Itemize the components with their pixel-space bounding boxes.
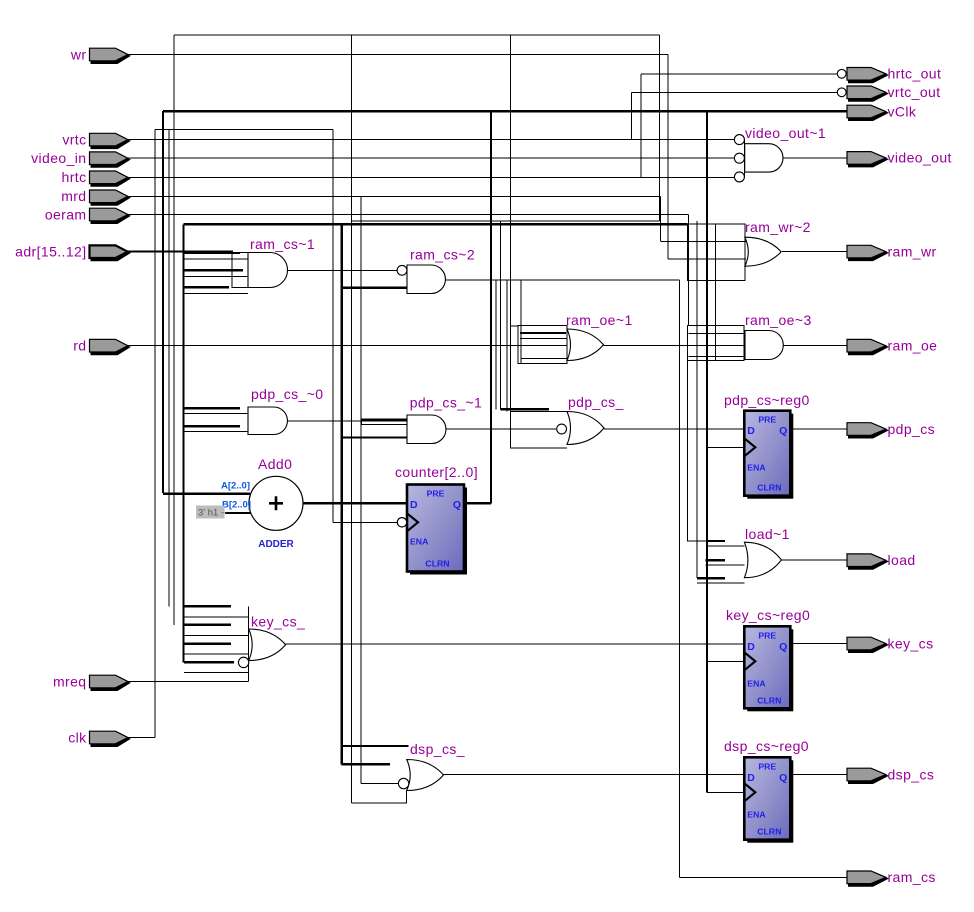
- wire oeram riser to ram_oe~3: [687, 214, 689, 325]
- svg-text:mrd: mrd: [61, 188, 86, 204]
- bus stub ram_cs~1 in2: [184, 270, 248, 276]
- wire to hrtc_out: [641, 73, 837, 75]
- svg-text:CLRN: CLRN: [425, 559, 449, 569]
- wire mrd riser x660: [660, 196, 662, 241]
- wire key_cs_ box right edge: [248, 606, 250, 681]
- wire rd: [127, 345, 518, 347]
- output pin video_out: [847, 152, 889, 168]
- wire rail y220: [352, 220, 660, 222]
- bus stub key_cs_ in1: [184, 606, 249, 617]
- wire oeram: [127, 213, 688, 215]
- svg-text:adr[15..12]: adr[15..12]: [15, 244, 86, 260]
- wire mrd: [127, 195, 661, 197]
- svg-text:video_out: video_out: [888, 150, 952, 166]
- inverter bubble video in1 bubble: [734, 135, 744, 145]
- wire counter clk wire: [333, 521, 397, 523]
- bus stub load~1 in3: [697, 578, 744, 583]
- wire dsp_cs_ input2: [342, 763, 390, 765]
- inverter bubble dsp_cs_ input bubble: [398, 778, 408, 788]
- input box ram_wr~2 input box: [688, 224, 745, 280]
- svg-text:ENA: ENA: [410, 537, 429, 547]
- inverter bubble vrtc_out bubble: [837, 88, 846, 97]
- wire riser x520 to ram_oe~1: [520, 280, 522, 364]
- output pin key_cs: [847, 637, 889, 653]
- svg-text:pdp_cs_~1: pdp_cs_~1: [410, 395, 483, 411]
- bus stub key_cs_ in3: [184, 644, 249, 655]
- bus stub ram_cs~1 in3: [184, 287, 248, 293]
- wire counter Q riser x491 (thick): [490, 111, 492, 503]
- wire riser x510: [510, 35, 512, 448]
- wire into dsp_cs_ bubble: [361, 783, 399, 785]
- svg-text:hrtc: hrtc: [62, 169, 87, 185]
- wire pdp_cs_~1 out: [446, 428, 556, 430]
- wire ram_oe~1 out: [604, 345, 746, 347]
- bus stub pdp_cs_~0 in1: [184, 408, 248, 413]
- svg-text:ram_oe: ram_oe: [888, 338, 938, 354]
- wire ram_oe~1 box top feed: [511, 325, 518, 327]
- output pin hrtc_out: [847, 68, 889, 84]
- svg-text:vrtc: vrtc: [62, 131, 86, 147]
- bus stub pdp_cs_~1 in1: [362, 420, 407, 425]
- wire key FF clock stub: [707, 660, 744, 662]
- bus stub pdp_cs_~0 in2: [184, 426, 248, 431]
- wire pdp FF clock stub: [707, 446, 744, 448]
- wire dsp FF clock stub: [707, 791, 744, 793]
- svg-text:ram_cs: ram_cs: [888, 869, 936, 885]
- wire dsp FF Q to pin: [790, 774, 847, 776]
- input box ram_oe~1 input box: [518, 326, 567, 364]
- wire riser x351: [351, 35, 353, 803]
- wire ram_oe~3 in-top: [688, 333, 745, 335]
- wire to vrtc_out: [632, 91, 837, 93]
- wire wr riser x668: [667, 55, 669, 260]
- input pin oeram: [90, 208, 132, 224]
- svg-text:key_cs: key_cs: [888, 635, 934, 651]
- wire wr to ram_wr~2 in3: [668, 258, 688, 260]
- input pin mrd: [90, 190, 132, 206]
- svg-text:D: D: [747, 772, 755, 784]
- wire ram_cs~2 out: [446, 279, 680, 281]
- AND gate ram_oe~3: [745, 331, 783, 360]
- svg-text:video_in: video_in: [31, 150, 86, 166]
- wire clk rail y129: [155, 128, 333, 130]
- svg-text:CLRN: CLRN: [757, 827, 781, 837]
- wire wr: [127, 54, 668, 56]
- output pin ram_cs: [847, 871, 889, 887]
- svg-text:Q: Q: [453, 499, 461, 511]
- output pin ram_wr: [847, 245, 889, 261]
- svg-text:ENA: ENA: [747, 463, 766, 473]
- wire ram_cs~2 bottom input: [342, 287, 407, 289]
- svg-text:PRE: PRE: [758, 761, 776, 771]
- inverter bubble video in2 bubble: [734, 153, 744, 163]
- input pin rd: [90, 339, 132, 355]
- input box ram_oe~3 input box: [688, 325, 745, 360]
- wire ram_wr~2 in3 inside box: [688, 258, 746, 260]
- svg-text:wr: wr: [70, 46, 87, 62]
- wire pdp_cs_ out to FF: [604, 428, 744, 430]
- adder Add0: [249, 476, 303, 530]
- wire adr[15..12] bus: [127, 250, 233, 252]
- wire dsp_cs_ out to FF: [444, 774, 745, 776]
- wire counter Q out (thick): [464, 502, 491, 504]
- wire hrtc: [127, 176, 734, 178]
- bus stub ram_cs~1 in1: [184, 253, 248, 259]
- input pin adr[15..12]: [90, 245, 132, 261]
- wire adder B input (thick): [225, 512, 252, 514]
- wire ram_oe~3 in-bottom: [688, 356, 745, 358]
- svg-text:CLRN: CLRN: [757, 483, 781, 493]
- wire ram_cs riser x679: [678, 280, 680, 878]
- svg-text:ram_oe~1: ram_oe~1: [566, 312, 633, 328]
- wire ram_wr~2 out: [782, 251, 847, 253]
- wire vClk rail y111 (thick): [163, 110, 847, 112]
- wire clk riser x155: [154, 129, 156, 737]
- bus stub ram_oe~1 in1: [520, 333, 567, 338]
- inverter bubble ram_cs~2 input bubble: [397, 265, 407, 275]
- svg-text:D: D: [747, 641, 755, 653]
- wire video_in: [127, 157, 734, 159]
- input pin clk: [90, 731, 132, 747]
- svg-text:rd: rd: [73, 338, 86, 354]
- svg-text:Q: Q: [779, 772, 787, 784]
- svg-text:D: D: [747, 425, 755, 437]
- wire key FF Q to pin: [790, 643, 847, 645]
- svg-text:Q: Q: [779, 425, 787, 437]
- AND gate pdp_cs_~1: [407, 415, 446, 444]
- wire pdp FF Q to pin: [790, 428, 847, 430]
- AND gate video_out~1: [745, 144, 783, 172]
- svg-text:ram_oe~3: ram_oe~3: [745, 312, 812, 328]
- svg-text:mreq: mreq: [53, 673, 87, 689]
- inverter bubble pdp_cs_ input bubble: [557, 424, 567, 434]
- output pin ram_oe: [847, 339, 889, 355]
- wire pdp_cs_~0 out: [288, 420, 408, 422]
- wire riser x169: [168, 129, 170, 606]
- svg-text:vClk: vClk: [888, 103, 917, 119]
- output pin vClk: [847, 105, 889, 121]
- wire mrd riser x361 to dsp bubble: [360, 196, 362, 783]
- wire adr bus riser x183 (thick): [182, 224, 184, 662]
- svg-text:ram_cs~2: ram_cs~2: [410, 247, 475, 263]
- wire video_out~1 input edge: [744, 140, 746, 177]
- output pin vrtc_out: [847, 86, 889, 102]
- svg-text:ram_cs~1: ram_cs~1: [250, 236, 315, 252]
- wire counterQ bus riser x163 (thick): [162, 111, 164, 493]
- wire key_cs_ out to FF: [286, 643, 745, 645]
- bus stub key_cs_ in2: [184, 625, 249, 636]
- svg-text:PRE: PRE: [758, 415, 776, 425]
- wire vrtc_out riser: [631, 92, 633, 139]
- svg-text:ENA: ENA: [747, 809, 766, 819]
- bus stub key_cs_ in4: [184, 662, 249, 673]
- wire riser x687 to load in1: [687, 325, 689, 541]
- svg-text:pdp_cs: pdp_cs: [888, 421, 936, 437]
- wire ram_wr~2 in2 inside box: [688, 240, 746, 242]
- svg-text:PRE: PRE: [427, 489, 445, 499]
- OR gate key_cs_: [249, 629, 286, 661]
- wire ram_oe~1 in2: [521, 358, 567, 360]
- svg-text:CLRN: CLRN: [757, 695, 781, 705]
- wire clk riser x333: [332, 129, 334, 522]
- wire riser x507: [506, 280, 508, 412]
- input pin wr: [90, 48, 132, 64]
- svg-text:3' h1 --: 3' h1 --: [198, 508, 227, 519]
- input box ram_cs~1 input box: [232, 253, 248, 288]
- wire riser x715: [715, 224, 717, 361]
- wire adder A input (thick): [163, 492, 250, 494]
- svg-text:clk: clk: [68, 729, 87, 745]
- svg-text:ram_wr: ram_wr: [888, 243, 937, 259]
- OR gate load~1: [744, 542, 781, 578]
- svg-text:Add0: Add0: [258, 456, 292, 472]
- wire to ram_cs pin: [679, 876, 847, 878]
- input box pdp_cs_: [511, 411, 568, 447]
- wire rd through ram_oe~1 box: [518, 345, 567, 347]
- svg-text:pdp_cs_~0: pdp_cs_~0: [251, 386, 324, 402]
- svg-text:D: D: [410, 499, 418, 511]
- output pin dsp_cs: [847, 768, 889, 784]
- wire vrtc: [127, 139, 734, 141]
- input pin vrtc: [90, 133, 132, 149]
- svg-text:load~1: load~1: [745, 526, 790, 542]
- wire hrtc_out riser: [640, 74, 642, 178]
- svg-text:dsp_cs~reg0: dsp_cs~reg0: [724, 738, 809, 754]
- svg-text:dsp_cs: dsp_cs: [888, 766, 935, 782]
- bus stub load~1 in1: [707, 541, 744, 546]
- wire adder out to counter D (thick): [303, 502, 407, 504]
- inverter bubble key_cs_ input bubble: [238, 657, 248, 667]
- wire load in1 feed: [688, 540, 708, 542]
- wire thick riser x341: [341, 224, 343, 764]
- wire riser x500: [500, 221, 502, 410]
- OR gate dsp_cs_: [407, 760, 444, 791]
- AND gate ram_cs~2: [407, 265, 445, 294]
- wire dsp_cs_ input1: [342, 745, 409, 747]
- output pin pdp_cs: [847, 423, 889, 439]
- svg-text:Q: Q: [779, 641, 787, 653]
- bus stub load~1 in2: [706, 560, 745, 565]
- wire adr rail y224 (thick): [184, 223, 688, 225]
- svg-text:dsp_cs_: dsp_cs_: [410, 741, 465, 757]
- OR gate ram_oe~1: [567, 329, 604, 361]
- input pin mreq: [90, 675, 132, 691]
- wire ram_cs~1 out: [288, 269, 398, 271]
- AND gate ram_cs~1: [248, 253, 288, 288]
- input pin video_in: [90, 152, 132, 168]
- wire clock riser x707 (thick): [706, 111, 708, 792]
- wire top-frame left riser x174: [173, 35, 175, 625]
- svg-text:counter[2..0]: counter[2..0]: [395, 464, 478, 480]
- svg-text:ENA: ENA: [747, 678, 766, 688]
- OR gate pdp_cs_: [567, 412, 604, 445]
- svg-text:key_cs~reg0: key_cs~reg0: [726, 607, 810, 623]
- constant 3'h1: [196, 506, 227, 519]
- svg-text:hrtc_out: hrtc_out: [888, 66, 942, 82]
- inverter bubble video in3 bubble: [734, 172, 744, 182]
- svg-text:oeram: oeram: [45, 206, 87, 222]
- svg-text:ADDER: ADDER: [258, 539, 294, 550]
- inverter bubble hrtc_out bubble: [837, 69, 846, 78]
- svg-text:video_out~1: video_out~1: [745, 125, 826, 141]
- wire mreq: [127, 680, 249, 682]
- flip-flop key_cs~reg0: [744, 626, 793, 711]
- wire dsp_cs_ lower box: [352, 791, 407, 804]
- wire top frame right riser x659: [658, 35, 660, 221]
- wire riser x697: [696, 221, 698, 578]
- wire clk: [127, 737, 155, 739]
- svg-text:PRE: PRE: [758, 630, 776, 640]
- flip-flop dsp_cs~reg0: [744, 757, 793, 842]
- OR gate ram_wr~2: [745, 237, 781, 266]
- output pin load: [847, 554, 889, 570]
- svg-text:pdp_cs_: pdp_cs_: [568, 394, 624, 410]
- AND gate pdp_cs_~0: [248, 407, 287, 435]
- wire top frame rail y35: [174, 34, 659, 36]
- input pin hrtc: [90, 171, 132, 187]
- wire mrd to ram_wr~2 in2: [661, 240, 688, 242]
- flip-flop counter[2..0]: [397, 485, 467, 575]
- wire riser x496: [495, 280, 497, 410]
- svg-text:pdp_cs~reg0: pdp_cs~reg0: [724, 392, 810, 408]
- svg-text:ram_wr~2: ram_wr~2: [745, 219, 811, 235]
- svg-text:key_cs_: key_cs_: [251, 614, 305, 630]
- svg-text:A[2..0]: A[2..0]: [221, 481, 250, 492]
- svg-text:load: load: [888, 552, 916, 568]
- svg-text:vrtc_out: vrtc_out: [888, 84, 941, 100]
- wire load~1 out: [782, 559, 847, 561]
- flip-flop pdp_cs~reg0: [744, 411, 793, 499]
- wire pdp_cs_ top input (thick): [501, 408, 550, 410]
- wire ram_oe~3 out to pin: [783, 345, 847, 347]
- wire pdp_cs_~1 bottom input: [342, 436, 407, 438]
- wire video_out~1 out: [783, 157, 847, 159]
